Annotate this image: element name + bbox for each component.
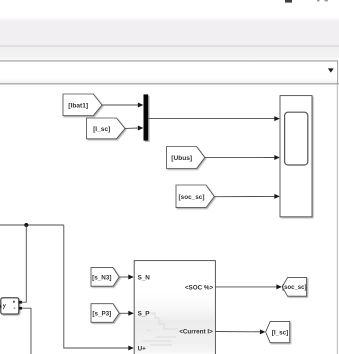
address bar — [0, 60, 339, 84]
toolbar icon remnant 2 — [317, 0, 320, 1]
svg-text:<SOC %>: <SOC %> — [185, 285, 214, 292]
wire junction down to sensor — [22, 225, 26, 302]
svg-text:[s_N3]: [s_N3] — [92, 274, 111, 281]
svg-text:<Current I>: <Current I> — [179, 329, 213, 336]
from block [I_sc] — [87, 118, 126, 139]
svg-text:U+: U+ — [138, 346, 147, 353]
wire Current to goto — [215, 329, 265, 334]
canvas right border — [336, 84, 338, 354]
wire soc_sc to scope — [214, 194, 279, 199]
from block [soc_sc] — [176, 185, 214, 208]
svg-text:[I_sc]: [I_sc] — [93, 126, 110, 133]
from block [s_P3] — [91, 304, 119, 323]
svg-text:[Ubus]: [Ubus] — [171, 155, 192, 162]
junction node — [24, 223, 28, 227]
toolbar icon remnant 1 — [285, 0, 292, 3]
svg-text:S_P: S_P — [138, 311, 150, 318]
goto block [soc_sc] — [282, 277, 306, 296]
scope block — [280, 96, 312, 217]
toolbar background strip — [0, 0, 339, 61]
svg-text:[s_P3]: [s_P3] — [92, 311, 111, 318]
wire top-left horizontal — [0, 224, 64, 226]
sensor block — [0, 298, 22, 314]
wire s_P3 to S_P — [119, 311, 134, 316]
wire sensor out down — [22, 308, 31, 354]
wire mux to scope — [148, 116, 280, 121]
svg-text:[Ibat1]: [Ibat1] — [68, 102, 88, 109]
wire I_sc to mux — [125, 126, 143, 131]
address bar dropdown arrow — [328, 68, 334, 72]
toolbar icon remnant 3 — [325, 0, 328, 1]
wire right branch to U+ — [64, 225, 134, 351]
mux bar — [144, 94, 150, 142]
wire Ubus to scope — [205, 155, 280, 160]
battery subsystem block — [134, 261, 215, 354]
wire SOC to goto — [215, 284, 282, 289]
from block [s_N3] — [91, 268, 119, 287]
wire s_N3 to S_N — [119, 275, 134, 280]
from block [Ubus] — [167, 147, 205, 169]
svg-text:S_N: S_N — [138, 275, 151, 282]
from block [Ibat1] — [63, 94, 102, 116]
svg-text:[soc_sc]: [soc_sc] — [179, 194, 205, 201]
svg-text:[I_sc]: [I_sc] — [272, 329, 288, 336]
goto block [I_sc] — [266, 321, 290, 342]
svg-text:[soc_sc]: [soc_sc] — [282, 285, 306, 291]
wire Ibat1 to mux — [102, 103, 143, 108]
